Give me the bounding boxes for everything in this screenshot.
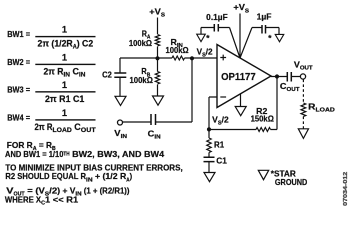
svg-text:OUT: OUT — [300, 65, 313, 71]
svg-text:) C2: ) C2 — [77, 39, 93, 49]
svg-text:AND BW1 = 1/10: AND BW1 = 1/10 — [5, 149, 64, 159]
svg-text:R: R — [308, 101, 315, 111]
svg-text:OUT: OUT — [286, 87, 300, 93]
svg-text:+V: +V — [233, 2, 245, 12]
svg-text:IN: IN — [154, 134, 160, 140]
svg-text:0.1µF: 0.1µF — [206, 12, 228, 22]
svg-text:S: S — [161, 13, 165, 19]
svg-text:C: C — [70, 66, 79, 76]
svg-text:100kΩ: 100kΩ — [129, 38, 152, 48]
svg-text:2π R: 2π R — [44, 66, 64, 76]
svg-text:1µF: 1µF — [257, 11, 272, 21]
svg-text:C: C — [72, 122, 81, 132]
svg-text:OUT: OUT — [81, 128, 96, 134]
svg-text:1: 1 — [62, 80, 67, 90]
svg-text:/2: /2 — [206, 46, 213, 56]
svg-text:2π R: 2π R — [35, 122, 53, 132]
svg-text:BW3 =: BW3 = — [7, 85, 30, 94]
svg-text:100kΩ: 100kΩ — [130, 75, 154, 85]
svg-text:R1: R1 — [214, 140, 224, 150]
svg-text:/2: /2 — [222, 115, 229, 125]
svg-text:): ) — [130, 171, 133, 181]
svg-text:1: 1 — [62, 52, 67, 62]
svg-text:LOAD: LOAD — [53, 128, 73, 134]
svg-text:BW1 =: BW1 = — [7, 30, 30, 39]
svg-text:WHERE X: WHERE X — [5, 194, 42, 204]
svg-text:C: C — [148, 128, 155, 138]
svg-text:R2 SHOULD EQUAL R: R2 SHOULD EQUAL R — [5, 171, 86, 181]
svg-text:BW2, BW3, AND BW4: BW2, BW3, AND BW4 — [70, 149, 165, 159]
svg-text:OP1177: OP1177 — [221, 72, 256, 83]
svg-text:C1: C1 — [216, 155, 227, 165]
svg-text:1: 1 — [62, 25, 67, 35]
svg-text:+V: +V — [149, 7, 161, 17]
svg-text:07034-012: 07034-012 — [343, 171, 349, 205]
svg-text:BW4 =: BW4 = — [7, 113, 30, 122]
svg-text:BW2 =: BW2 = — [7, 58, 30, 67]
svg-text:2π R1 C1: 2π R1 C1 — [45, 94, 84, 104]
svg-text:S: S — [245, 8, 249, 14]
svg-text:GROUND: GROUND — [275, 177, 307, 187]
svg-text:C2: C2 — [102, 69, 112, 79]
svg-text:100kΩ: 100kΩ — [166, 45, 189, 55]
svg-text:1 << R1: 1 << R1 — [45, 194, 79, 204]
svg-text:(1 + (R2/R1)): (1 + (R2/R1)) — [82, 185, 130, 195]
svg-text:LOAD: LOAD — [315, 108, 334, 114]
svg-text:150kΩ: 150kΩ — [251, 114, 275, 124]
svg-text:IN: IN — [121, 134, 127, 140]
svg-text:IN: IN — [79, 72, 86, 78]
svg-text:1: 1 — [62, 108, 67, 118]
svg-text:+ (1/2 R: + (1/2 R — [93, 171, 127, 181]
svg-text:2π (1/2R: 2π (1/2R — [38, 39, 73, 49]
